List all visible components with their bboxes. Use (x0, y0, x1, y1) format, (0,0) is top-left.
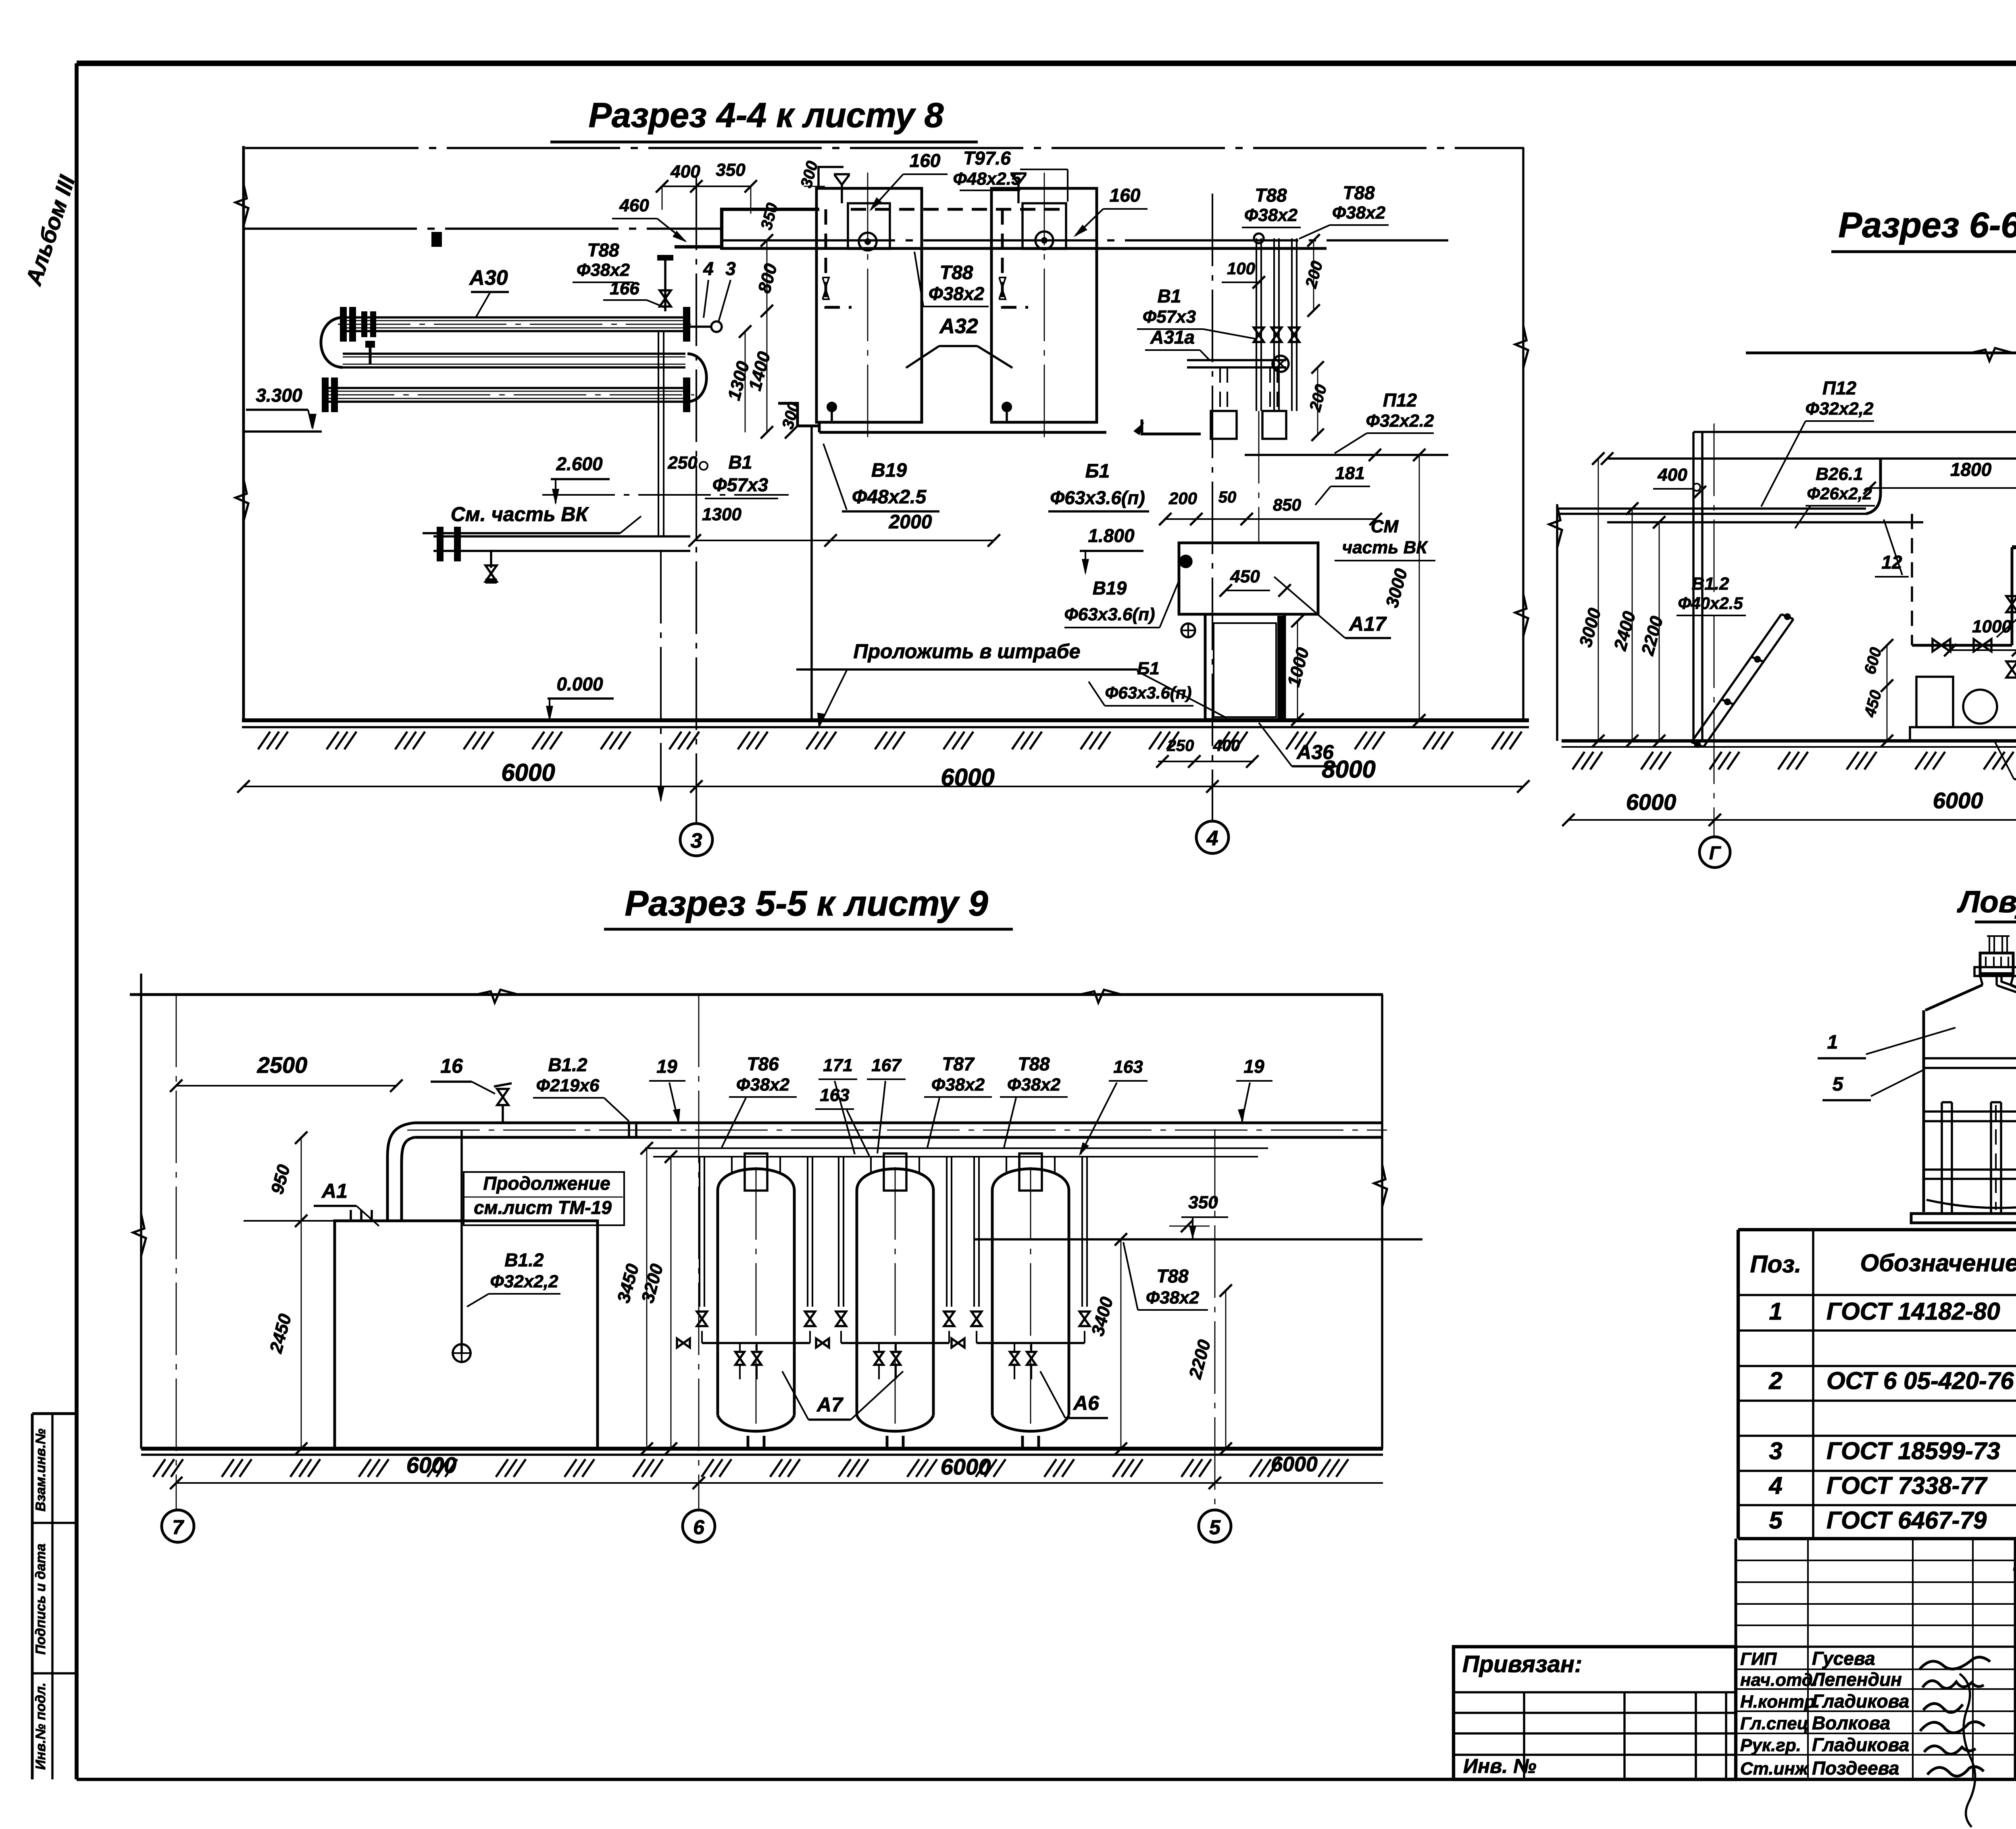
svg-text:Гладикова: Гладикова (1812, 1734, 1909, 1755)
svg-text:СМ: СМ (1371, 517, 1399, 536)
svg-text:2.600: 2.600 (556, 453, 603, 474)
svg-text:В19: В19 (1093, 578, 1127, 599)
svg-text:3: 3 (725, 258, 736, 279)
valve T88 166 (664, 258, 666, 311)
svg-text:350: 350 (716, 160, 746, 180)
svg-text:6000: 6000 (1271, 1453, 1318, 1476)
pump suction manifold (1912, 644, 2012, 647)
bottle bottom curve (1926, 1200, 2016, 1208)
svg-text:В1.2: В1.2 (504, 1249, 544, 1270)
column axis 3 (696, 177, 697, 823)
column axis 5 (1214, 1129, 1216, 1509)
svg-text:250: 250 (1167, 737, 1194, 755)
dim verticals left of boiler (766, 240, 768, 432)
column mark 7 (162, 1510, 194, 1542)
svg-text:Лепендин: Лепендин (1811, 1669, 1902, 1690)
svg-text:3.300: 3.300 (256, 385, 302, 406)
pipe P12 (1245, 454, 1448, 456)
bottle tubes top (1989, 936, 1990, 953)
svg-text:Б1: Б1 (1085, 461, 1110, 482)
svg-text:450: 450 (1230, 567, 1260, 586)
column axis 7 (176, 995, 177, 1509)
axis line 2 section 4-4 right (722, 239, 1448, 242)
left break 6-6 (1556, 504, 1558, 741)
svg-text:Ф63х3.6(п): Ф63х3.6(п) (1064, 605, 1155, 624)
svg-text:Взам.инв.№: Взам.инв.№ (33, 1429, 48, 1512)
column axis G (1714, 423, 1715, 836)
svg-text:Разрез 6-6 к листу 8: Разрез 6-6 к листу 8 (1838, 205, 2016, 245)
svg-text:Ф38х2: Ф38х2 (929, 283, 985, 304)
svg-text:19: 19 (1243, 1056, 1264, 1077)
pump A10 base (1910, 727, 2016, 741)
svg-text:400: 400 (670, 162, 700, 181)
svg-text:Т87: Т87 (942, 1053, 975, 1074)
floor 5-5 (141, 1447, 1383, 1451)
svg-text:1800: 1800 (1950, 459, 1992, 480)
bottle cap (1980, 953, 2013, 974)
svg-text:6000: 6000 (501, 759, 555, 786)
svg-text:171: 171 (823, 1055, 852, 1075)
dashed pipe boiler 1 (826, 209, 852, 307)
svg-text:Н.контр.: Н.контр. (1740, 1692, 1820, 1712)
A30 right U-bend (687, 354, 706, 402)
svg-text:3: 3 (1769, 1437, 1782, 1464)
svg-text:А6: А6 (1073, 1392, 1100, 1414)
svg-text:Поздеева: Поздеева (1812, 1758, 1899, 1779)
svg-text:7: 7 (172, 1516, 184, 1539)
A30 valve under tube2 (365, 341, 375, 348)
big pipe elbow (387, 1123, 414, 1221)
svg-text:А31а: А31а (1150, 327, 1195, 348)
svg-text:А7: А7 (816, 1393, 843, 1416)
tank A6 (992, 1169, 1069, 1191)
pump boxes (1211, 411, 1237, 439)
svg-text:6000: 6000 (406, 1452, 457, 1478)
svg-text:ГОСТ 14182-80: ГОСТ 14182-80 (1826, 1298, 2000, 1325)
svg-text:2: 2 (1768, 1367, 1782, 1394)
svg-text:400: 400 (1657, 465, 1687, 485)
elbow pipe B1 (1142, 419, 1201, 434)
A30 flanges tube3 (322, 377, 329, 412)
svg-text:Ф57х3: Ф57х3 (712, 474, 768, 495)
pump risers dashed (1219, 367, 1221, 411)
riser B1.2 55 (460, 1130, 463, 1353)
svg-text:см.лист ТМ-19: см.лист ТМ-19 (474, 1197, 612, 1218)
svg-text:Рук.гр.: Рук.гр. (1740, 1735, 1801, 1755)
column mark 4 (1196, 821, 1229, 853)
svg-text:Т97.6: Т97.6 (963, 148, 1011, 169)
svg-text:Подпись и дата: Подпись и дата (33, 1543, 48, 1655)
svg-text:1.800: 1.800 (1088, 525, 1135, 546)
left break 5-5 (140, 974, 142, 1449)
border frame (77, 60, 2016, 66)
boiler 1 axis (867, 173, 868, 440)
svg-text:850: 850 (1273, 495, 1301, 514)
svg-text:Гусева: Гусева (1812, 1648, 1875, 1669)
ground 6-6 (1562, 739, 2016, 742)
title block project number (2015, 1601, 2016, 1604)
crate slats (1941, 1102, 1943, 1214)
svg-text:12: 12 (1881, 552, 1902, 573)
tank A7-2 (857, 1169, 933, 1191)
svg-text:Ф26х2,2: Ф26х2,2 (1807, 484, 1872, 503)
tanks manifold lines (645, 1147, 1268, 1149)
svg-text:6000: 6000 (941, 764, 994, 791)
svg-text:Ф38х2: Ф38х2 (1146, 1288, 1200, 1308)
burner box 2 (1023, 203, 1066, 249)
svg-text:Ловушка кислоты.: Ловушка кислоты. (1957, 885, 2016, 919)
pipe B26.1 (1607, 521, 1923, 523)
svg-text:163: 163 (820, 1085, 849, 1105)
svg-text:400: 400 (1213, 737, 1240, 755)
right break edge 4-4 (1522, 148, 1524, 720)
pipe P12 top (1557, 507, 1866, 510)
svg-text:Ф32х2,2: Ф32х2,2 (1806, 399, 1874, 419)
riser line to floor (810, 426, 813, 721)
svg-text:В1.2: В1.2 (1692, 574, 1729, 594)
vent funnel boiler 2 (1010, 172, 1027, 175)
ceiling line 3300 (1693, 431, 2016, 433)
tank top hats (745, 1153, 767, 1191)
axis Sm chast VK (542, 494, 789, 496)
crate rails (1924, 1110, 2016, 1113)
svg-text:Ф38х2: Ф38х2 (931, 1075, 985, 1095)
tank A1 55 (335, 1221, 598, 1449)
dim line 6000x3 (176, 1482, 1383, 1484)
svg-text:Ф32х2,2: Ф32х2,2 (490, 1272, 558, 1291)
column axis 6 (698, 995, 700, 1509)
svg-text:ГОСТ 18599-73: ГОСТ 18599-73 (1826, 1437, 2000, 1464)
svg-text:А32: А32 (939, 315, 978, 338)
ground hatching 5-5 (153, 1459, 165, 1477)
boiler 1 body (816, 188, 922, 422)
svg-text:Ф48х2.5: Ф48х2.5 (852, 486, 927, 508)
ground hatching 4-4 (258, 732, 270, 749)
svg-text:166: 166 (610, 279, 639, 298)
svg-text:Т88: Т88 (1156, 1266, 1189, 1287)
svg-text:ОСТ 6 05-420-76: ОСТ 6 05-420-76 (1826, 1367, 2014, 1394)
svg-text:200: 200 (1168, 489, 1197, 508)
svg-text:6000: 6000 (1933, 788, 1983, 813)
svg-text:1300: 1300 (702, 505, 741, 524)
vertical valve on riser (2006, 661, 2016, 678)
svg-text:Поз.: Поз. (1750, 1251, 1801, 1278)
top-left pipe hook (818, 167, 843, 188)
title block middle grid (1735, 1539, 1737, 1779)
A30 left U-bend (321, 317, 343, 367)
boiler 2 axis (1044, 173, 1045, 440)
riser pipe right of A30 (658, 331, 659, 536)
svg-text:Проложить в штрабе: Проложить в штрабе (854, 640, 1081, 663)
target circle lower (1181, 624, 1195, 637)
svg-text:250: 250 (667, 453, 698, 473)
A17 room upper (1179, 543, 1318, 614)
svg-text:100: 100 (1227, 259, 1255, 278)
svg-text:6000: 6000 (1626, 789, 1677, 815)
svg-text:1: 1 (1827, 1032, 1838, 1053)
svg-text:2500: 2500 (257, 1052, 308, 1078)
column mark 3 (680, 824, 712, 856)
svg-text:П12: П12 (1822, 377, 1857, 398)
B1 valve (490, 551, 492, 568)
svg-text:Т88: Т88 (1018, 1053, 1050, 1074)
svg-text:Ст.инж: Ст.инж (1740, 1759, 1809, 1779)
flange blob on axis (431, 232, 442, 247)
title block attach table (1454, 1647, 1736, 1779)
svg-text:Г: Г (1709, 843, 1721, 863)
svg-text:16: 16 (440, 1055, 463, 1077)
heat exchanger A30 tube 2 (343, 352, 685, 355)
svg-text:Ф38х2: Ф38х2 (1332, 203, 1386, 223)
svg-text:Б1: Б1 (1137, 659, 1160, 678)
crate center dash (1995, 1105, 1997, 1210)
pump riser pipe (2011, 547, 2014, 645)
parts table grid (1737, 1230, 1740, 1539)
svg-text:1000: 1000 (1972, 617, 2012, 636)
svg-text:5: 5 (1769, 1507, 1783, 1534)
bottle neck (1980, 976, 1983, 985)
svg-text:Ф63х3.6(п): Ф63х3.6(п) (1050, 487, 1145, 508)
svg-text:2000: 2000 (889, 511, 932, 533)
base plate (1911, 1214, 2016, 1223)
dashed top run between boilers (851, 208, 1068, 211)
pump A10 circle (1963, 690, 1997, 724)
bottle shoulders (1925, 985, 1983, 1010)
svg-text:Т86: Т86 (747, 1053, 779, 1074)
pipe joint (628, 1123, 630, 1137)
svg-text:Ф40х2.5: Ф40х2.5 (1678, 594, 1743, 613)
big pipe F219 (414, 1122, 1383, 1124)
svg-text:Ф38х2: Ф38х2 (736, 1075, 790, 1095)
column mark 5 (1199, 1510, 1231, 1542)
svg-text:160: 160 (910, 150, 941, 171)
riser dash to floor (660, 551, 662, 801)
pipe A31a (1187, 359, 1286, 361)
node circle (711, 321, 722, 332)
thick pipe run to vessel (2012, 547, 2016, 688)
ladder (1691, 614, 1781, 742)
svg-text:Т88: Т88 (587, 240, 619, 261)
A30 flanges left top (340, 307, 347, 342)
svg-text:А36: А36 (1296, 741, 1334, 763)
column axis 4 (1212, 194, 1213, 820)
svg-text:Т88: Т88 (940, 262, 973, 284)
svg-text:Т88: Т88 (1343, 182, 1375, 203)
svg-text:Инв.№ подл.: Инв.№ подл. (33, 1683, 48, 1770)
A17 room lower (1205, 614, 1285, 720)
heat exchanger A30 tube 3 (325, 387, 690, 389)
pipe T88 right 55 (973, 1238, 1422, 1241)
main pipe T88 horizontal (720, 247, 1327, 250)
roof line 6-6 (1746, 352, 2016, 355)
risers T88 right (1256, 238, 1257, 411)
svg-text:Ф38х2: Ф38х2 (1007, 1075, 1061, 1095)
svg-text:5: 5 (1209, 1516, 1221, 1539)
burner circle 2 (1035, 231, 1053, 249)
left dim verticals 6-6 (1598, 459, 1599, 741)
svg-text:Ф57х3: Ф57х3 (1143, 307, 1196, 327)
svg-text:19: 19 (656, 1056, 677, 1077)
svg-text:ТП 903-1-220.86: ТП 903-1-220.86 (2011, 1562, 2016, 1594)
svg-text:460: 460 (619, 196, 649, 215)
svg-text:6: 6 (693, 1516, 705, 1539)
svg-text:Ф219х6: Ф219х6 (536, 1076, 600, 1095)
line level2 (1607, 457, 2016, 460)
dimension line 6000 6000 8000 (244, 786, 1523, 787)
svg-text:Гладикова: Гладикова (1812, 1691, 1909, 1712)
svg-text:0.000: 0.000 (556, 674, 603, 694)
tank risers and valves (699, 1157, 700, 1307)
heat exchanger A30 tube 1 (343, 316, 685, 319)
pump drop pipe dashed (1911, 514, 1913, 645)
bottle bands (1924, 1057, 2016, 1059)
svg-text:Т88: Т88 (1255, 185, 1287, 206)
svg-text:160: 160 (1110, 185, 1141, 206)
svg-text:4: 4 (1768, 1472, 1782, 1499)
ceiling line 5-5 (130, 993, 1383, 996)
svg-text:П12: П12 (1383, 390, 1417, 411)
svg-text:Ф48х2.5: Ф48х2.5 (953, 169, 1021, 189)
axis continuation under risers (1258, 411, 1260, 543)
svg-text:В1.2: В1.2 (548, 1054, 587, 1075)
svg-text:А30: А30 (469, 266, 508, 290)
svg-text:167: 167 (871, 1055, 902, 1075)
pump A10 motor (1916, 677, 1953, 727)
svg-text:Инв. №: Инв. № (1463, 1755, 1536, 1777)
svg-text:См. часть ВК: См. часть ВК (451, 503, 589, 526)
svg-text:Волкова: Волкова (1812, 1712, 1890, 1733)
svg-text:4: 4 (1206, 827, 1218, 850)
bottle body (1922, 1010, 1925, 1212)
svg-text:3: 3 (691, 829, 702, 853)
ceiling axis line section 4-4 (245, 147, 1524, 149)
B1 flanges (437, 527, 444, 561)
svg-text:ГОСТ 7338-77: ГОСТ 7338-77 (1826, 1472, 1988, 1499)
svg-text:5: 5 (1833, 1074, 1844, 1095)
svg-text:Продолжение: Продолжение (483, 1173, 610, 1194)
svg-text:181: 181 (1335, 463, 1364, 483)
vent funnel boiler 1 (834, 173, 850, 175)
burner box 1 (848, 203, 890, 249)
svg-text:Обозначение: Обозначение (1860, 1249, 2016, 1276)
wall column left 6-6 (1692, 432, 1695, 741)
svg-text:А1: А1 (321, 1180, 348, 1202)
svg-text:Ф38х2: Ф38х2 (577, 260, 630, 280)
burner circle 1 (859, 233, 877, 250)
drain tube inside (1997, 985, 2016, 1011)
svg-text:А17: А17 (1348, 613, 1387, 635)
left margin boxes (31, 1414, 34, 1779)
svg-text:В1: В1 (1158, 286, 1181, 307)
signature squiggles (1919, 1657, 1990, 1670)
door inner (1214, 623, 1276, 717)
tank A7-1 (718, 1169, 794, 1191)
svg-text:1: 1 (1769, 1298, 1782, 1325)
pipe step bend (675, 209, 819, 247)
svg-text:В1: В1 (729, 452, 752, 473)
svg-text:Гл.спец: Гл.спец (1740, 1714, 1808, 1733)
pipe B1 lower pair (433, 535, 690, 538)
boiler 2 body (991, 188, 1097, 422)
column mark G (1699, 837, 1730, 868)
bottom pipe under boilers (819, 431, 1106, 434)
dim line 6000 6000 6-6 (1568, 819, 2016, 821)
A30 flange right (683, 307, 690, 342)
svg-text:Разрез 5-5 к листу 9: Разрез 5-5 к листу 9 (625, 883, 988, 923)
column mark 6 (683, 1510, 715, 1542)
svg-text:4: 4 (703, 258, 714, 279)
valve 16 on pipe (502, 1105, 504, 1123)
svg-text:50: 50 (1218, 488, 1237, 506)
right break 5-5 (1381, 995, 1383, 1449)
svg-text:163: 163 (1113, 1057, 1143, 1077)
svg-text:ГОСТ 6467-79: ГОСТ 6467-79 (1826, 1507, 1987, 1534)
svg-text:В19: В19 (871, 460, 907, 481)
svg-text:Ф32х2.2: Ф32х2.2 (1366, 411, 1434, 431)
junction dots (827, 403, 836, 411)
svg-text:ГИП: ГИП (1740, 1649, 1777, 1669)
svg-text:нач.отд.: нач.отд. (1740, 1670, 1818, 1690)
target mark (1180, 556, 1191, 567)
left pipe elbow (778, 403, 819, 426)
floor section 4-4 (242, 718, 1529, 722)
svg-text:часть ВК: часть ВК (1342, 538, 1429, 557)
svg-text:350: 350 (1188, 1193, 1218, 1212)
left wall section 4-4 (242, 146, 245, 720)
svg-text:6000: 6000 (941, 1454, 991, 1479)
axis line 2 section 4-4 left (244, 227, 722, 230)
svg-text:В26.1: В26.1 (1816, 464, 1863, 484)
dashed pipe boiler 2 (1002, 209, 1028, 307)
svg-text:Привязан:: Привязан: (1462, 1651, 1582, 1677)
svg-text:Ф38х2: Ф38х2 (1244, 205, 1298, 225)
svg-text:Разрез 4-4 к листу 8: Разрез 4-4 к листу 8 (589, 96, 944, 135)
